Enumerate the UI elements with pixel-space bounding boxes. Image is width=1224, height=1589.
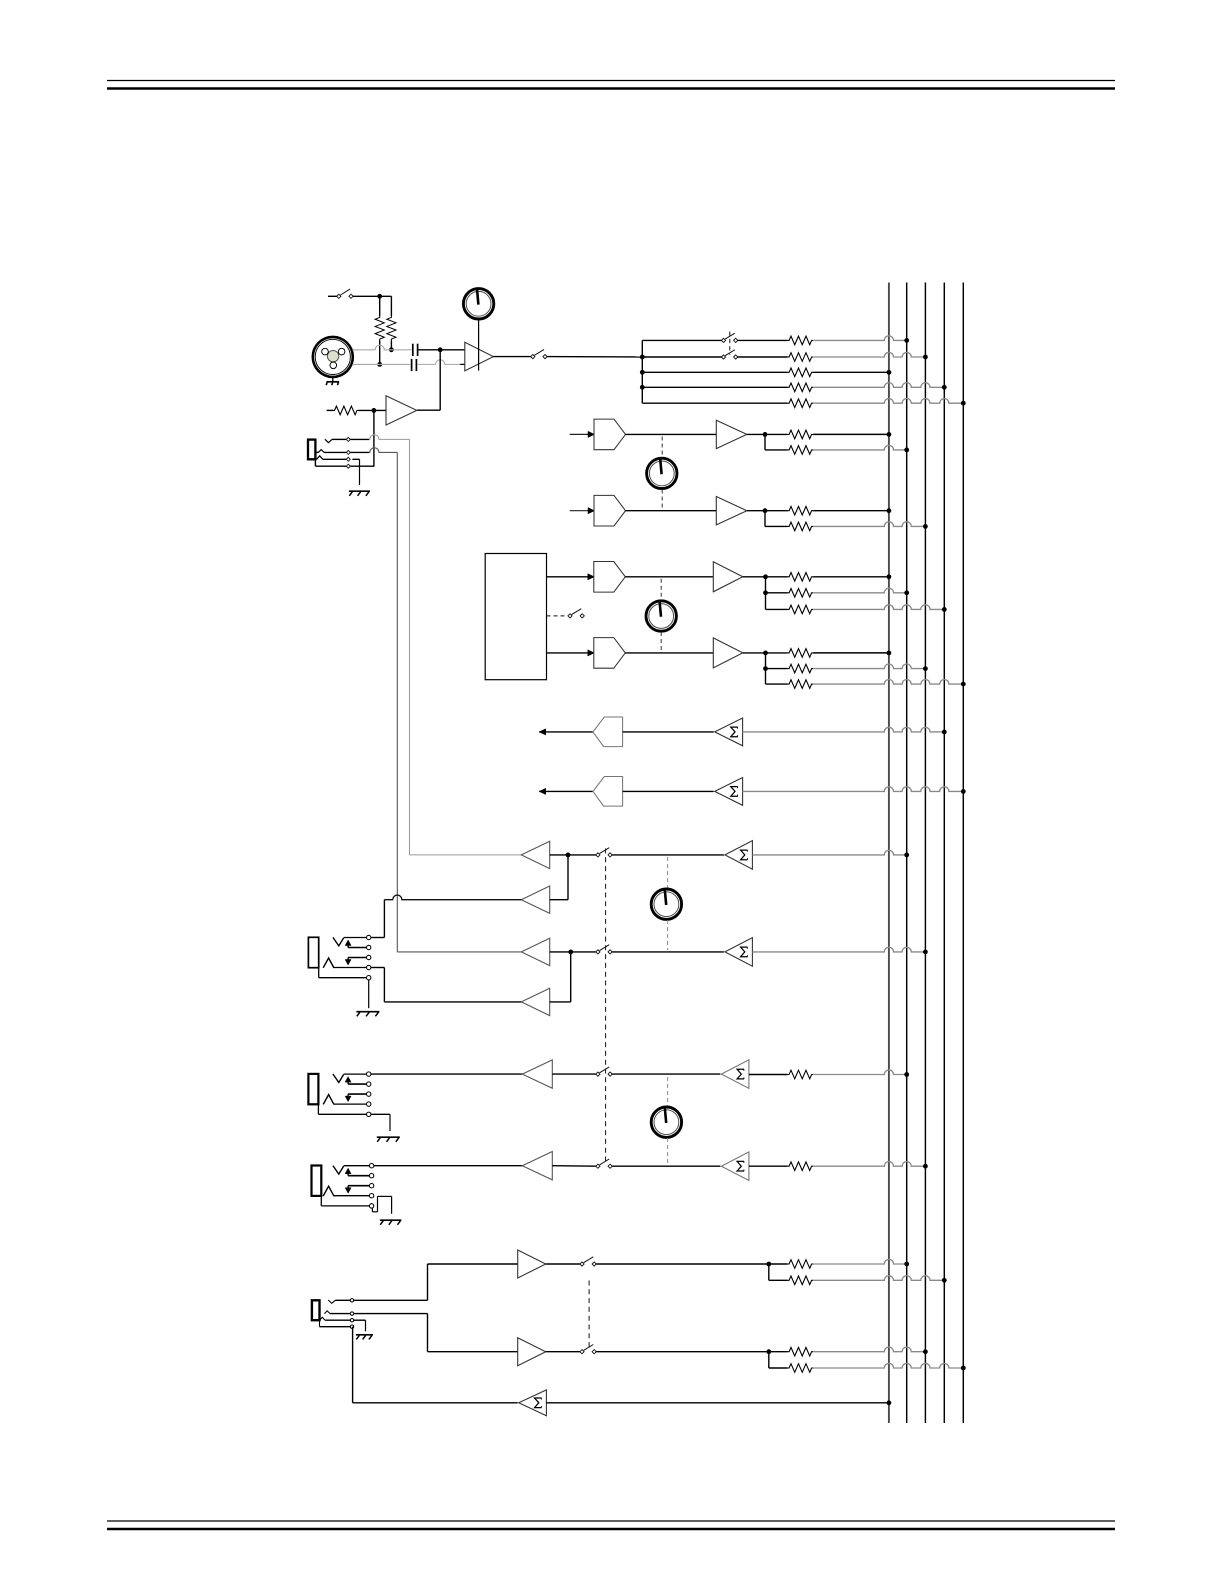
op-amp U aux2 [716, 497, 747, 525]
junction sum5 bus2 [904, 1072, 909, 1077]
junction row5 bus5 [961, 401, 966, 406]
resistor R aux1 main [788, 430, 814, 439]
wire EQ1 out [743, 576, 788, 578]
fader symbol aux master 2 [593, 777, 623, 807]
wire tape1 branch [769, 1264, 788, 1280]
wire aux1 to amp [626, 433, 717, 435]
op-amp U F monitor [522, 1152, 552, 1180]
wire tape1 to split [596, 1263, 788, 1265]
wire pot4 dash lower [667, 920, 669, 950]
junction line input node [372, 408, 377, 413]
wire fan row1 b [737, 339, 787, 341]
junction fan row3 [640, 370, 645, 375]
junction input node [438, 347, 443, 352]
junction sum3 bus2 [904, 853, 909, 858]
junction EQ1-1 bus1 [887, 574, 892, 579]
wire phantom feed [328, 295, 337, 297]
wire R1 bottom lead [379, 341, 381, 365]
wire XLR pin3 lead (cold) [352, 363, 410, 365]
summing amp U sum1 [715, 718, 743, 746]
jack J4 control room L [308, 1072, 371, 1117]
junction EQ1-2 bus2 [904, 590, 909, 595]
op-amp U EQ2 [713, 638, 743, 668]
wire aux2 branch [765, 511, 788, 527]
switch SW monitor E [596, 1067, 612, 1076]
wire J6 ring to amp [354, 1314, 518, 1352]
wire line node to jack [373, 410, 375, 466]
page border top [107, 81, 1115, 89]
junction sum7 bus1 [887, 1400, 892, 1405]
resistor R tape2 main [788, 1347, 814, 1356]
junction phantom node [377, 294, 382, 299]
wire R3 to buffer [359, 409, 387, 411]
arrow aux2 input [588, 508, 595, 514]
XLR connector J1 mic input [313, 337, 353, 377]
wire row4 to bus4 [813, 383, 944, 388]
wire EQ bypass dash [547, 615, 567, 617]
wire amp F input [552, 1165, 597, 1168]
junction EQ2-1 bus1 [887, 651, 892, 656]
wire R2 top lead [390, 296, 392, 316]
wire aux2 to bus1 [813, 510, 889, 512]
wire tip drive vertical [383, 900, 385, 938]
resistor R row5 [788, 399, 814, 408]
wire EQ2 to amp [625, 652, 713, 654]
op-amp U tape1 [518, 1250, 546, 1278]
wire J2 tip lead [350, 438, 369, 440]
wire pot5 dash upper [667, 1077, 669, 1107]
junction sum1 bus4 [942, 730, 947, 735]
resistor R3 line input [333, 406, 359, 415]
wire node A to amp B [550, 855, 568, 900]
wire to channel fan [547, 356, 643, 358]
wire node C to amp D [550, 952, 571, 1002]
junction row2 bus3 [923, 355, 928, 360]
wire sum2 from bus5 [743, 787, 964, 792]
wire aux1 branch to bus2 [813, 445, 907, 450]
resistor R tape1 branch [788, 1276, 814, 1285]
wire tape1 branch to bus4 [813, 1276, 944, 1281]
wire sum6 from bus3 [813, 1162, 925, 1167]
wire aux1 out [747, 433, 788, 435]
wire monitor feed C vertical [397, 452, 521, 952]
arrow aux send 2 output [539, 788, 546, 794]
wire row3 to bus1 [813, 371, 889, 373]
wire EQ out1 [547, 576, 589, 578]
wire J4 tip to amp E [371, 1073, 522, 1075]
wire EQ1-1 to bus1 [813, 576, 889, 578]
wire aux pan dash upper [661, 437, 663, 458]
junction EQ1 split1 [763, 574, 768, 579]
wire row1 to bus2 [813, 336, 907, 341]
wire row2 to bus3 [813, 352, 925, 357]
wire tape1 out [546, 1263, 581, 1265]
wire SW-E to sum [612, 1073, 721, 1075]
wire amp B output [384, 895, 521, 900]
capacitor C1 [413, 344, 418, 356]
op-amp U B monitor [521, 886, 549, 913]
junction EQ2 split2 [763, 666, 768, 671]
ground J4 [377, 1137, 400, 1142]
potentiometer VR1 gain [463, 288, 493, 319]
wire J5 sleeve step [372, 1196, 391, 1213]
wire sum3 from bus2 [752, 850, 906, 855]
wire EQ2-2 to bus3 [813, 664, 925, 669]
wire ring drive vertical [383, 968, 385, 1002]
ground J5 [380, 1220, 402, 1225]
wire EQ1-3 to bus4 [813, 605, 944, 610]
op-amp U2 line input buffer [386, 396, 417, 425]
fader symbol EQ2 [594, 638, 626, 669]
wire EQ1 to amp [625, 576, 713, 578]
wire gang dash SW row1-row2 [729, 332, 731, 355]
wire pot4 dash upper [667, 857, 669, 889]
wire sum6 out [749, 1165, 788, 1167]
resistor R row3 [788, 368, 814, 377]
junction sum4 bus3 [923, 950, 928, 955]
switch SW tape1 [580, 1257, 596, 1266]
bus line 4 (aux bus 1) [943, 283, 945, 1424]
wire aux1 input [570, 433, 589, 435]
wire SW-C to sum [612, 951, 724, 953]
wire EQ2-1 to bus1 [813, 652, 889, 654]
switch SW2 channel on [531, 349, 547, 358]
resistor R EQ2-3 [788, 680, 814, 689]
wire aux master 1 [623, 731, 714, 733]
wire J6 tip to amp [354, 1264, 518, 1300]
resistor R aux2 main [788, 506, 814, 515]
wire amp C input [550, 951, 597, 953]
op-amp U A monitor [521, 841, 549, 868]
junction aux2 bus3 [923, 524, 928, 529]
wire U1 output [493, 356, 531, 358]
page border bottom [107, 1521, 1115, 1529]
potentiometer VR3 EQ [646, 600, 676, 631]
junction R1 to XLR pin3 lead [377, 362, 382, 367]
wire line buffer out [417, 409, 440, 411]
wire monitor feed A vertical [410, 439, 522, 855]
wire phantom to resistors [353, 295, 392, 297]
wire EQ out2 [547, 652, 589, 654]
wire EQ2 branch1 drop [766, 653, 788, 669]
junction EQ2-2 bus3 [923, 666, 928, 671]
summing amp U sum4 [725, 938, 753, 967]
arrow aux1 input [588, 431, 595, 437]
ground XLR shell [326, 377, 339, 386]
wire J2 ring to monitor C [369, 448, 397, 453]
op-amp U1 mic preamp [465, 342, 494, 371]
wire tape1 to bus2 [813, 1259, 907, 1264]
op-amp U D monitor [521, 988, 549, 1015]
resistor R tape2 branch [788, 1364, 814, 1373]
wire aux pan dash lower [661, 490, 663, 510]
wire J4 ground path [371, 1114, 390, 1131]
wire J5 tip to amp F [374, 1165, 522, 1167]
op-amp U aux1 [716, 420, 747, 448]
junction EQ1 split2 [763, 590, 768, 595]
wire R2 bottom lead [390, 341, 392, 350]
potentiometer VR2 aux level [647, 458, 677, 489]
wire VR1 stem [478, 319, 480, 371]
potentiometer VR4 monitor level [651, 888, 681, 919]
wire EQ2 out [743, 652, 788, 654]
ground J6 [356, 1335, 373, 1340]
switch SW tape2 [580, 1345, 596, 1354]
resistor R1 phantom [375, 316, 384, 340]
wire J2 ring lead [350, 451, 369, 453]
wire aux master 2 [623, 790, 714, 792]
junction aux2 bus1 [887, 508, 892, 513]
junction row3 bus1 [887, 370, 892, 375]
fader symbol aux2 [594, 495, 626, 526]
switch SW row2 assign [721, 350, 737, 359]
switch SW monitor F [596, 1159, 612, 1168]
wire aux1 branch [765, 434, 788, 450]
wire C1 to amp junction [419, 349, 465, 351]
wire row5 to bus5 [813, 399, 963, 404]
wire tape2 to split [596, 1351, 788, 1353]
resistor R aux2 branch [788, 522, 814, 531]
wire J3 sleeve to ground [368, 980, 370, 1009]
potentiometer VR5 phones level [651, 1106, 681, 1137]
junction aux2 split [763, 508, 768, 513]
junction tape2 bus3 [923, 1349, 928, 1354]
junction monitor node A [566, 853, 571, 858]
wire fan row3 [642, 371, 787, 373]
bus line 5 (aux bus 2) [962, 283, 964, 1424]
wire fan row1 a [642, 339, 722, 341]
op-amp U C monitor [521, 938, 549, 965]
wire fan vertical [641, 340, 643, 403]
wire sum7 from bus1 [546, 1402, 889, 1404]
wire aux2 input [570, 510, 589, 512]
wire tape2 branch [769, 1352, 788, 1368]
junction fan row4 [640, 385, 645, 390]
junction tape1 bus4 [942, 1278, 947, 1283]
switch SW1 phantom power [337, 289, 353, 298]
wire amp D output [384, 1001, 521, 1003]
wire EQ pot dash upper [660, 579, 662, 600]
resistor R2 phantom [387, 316, 396, 340]
wire EQ2 branch2 drop [766, 669, 788, 685]
wire fan row5 [642, 402, 787, 404]
wire amp E input [552, 1073, 597, 1075]
wire R1 top lead [379, 296, 381, 316]
resistor R aux1 branch [788, 446, 814, 455]
wire fan row2 b [737, 356, 787, 358]
ground J3 [356, 1012, 379, 1017]
summing amp U sum6 [721, 1152, 749, 1181]
switch SW monitor A [596, 848, 612, 857]
summing amp U sum2 [715, 778, 743, 806]
summing amp U sum3 [725, 841, 753, 870]
wire J3 tip to amp B [371, 937, 384, 939]
wire SW-A to sum [612, 854, 724, 856]
resistor R EQ2-1 [788, 649, 814, 658]
wire EQ1-2 to bus2 [813, 588, 907, 593]
resistor R EQ1-2 [788, 589, 814, 598]
switch SW EQ bypass [568, 609, 584, 618]
junction EQ2-3 bus5 [961, 682, 966, 687]
wire tape2 branch to bus5 [813, 1363, 963, 1368]
wire EQ2-3 to bus5 [813, 680, 963, 685]
jack J6 tape in/out [312, 1299, 354, 1329]
resistor R row1 [788, 336, 814, 345]
EQ block U-EQ [485, 554, 546, 680]
wire line input resistor lead [327, 409, 333, 411]
wire sum5 out [749, 1074, 788, 1076]
wire tape gang dash [588, 1281, 590, 1350]
switch SW row1 assign [721, 333, 737, 342]
junction row1 bus2 [904, 338, 909, 343]
op-amp U E monitor [522, 1060, 552, 1088]
junction aux1 split [763, 432, 768, 437]
wire J2 contact to ground [352, 459, 359, 485]
ground J2 [349, 491, 370, 496]
wire sum5 from bus2 [813, 1070, 907, 1075]
junction aux1 bus1 [887, 432, 892, 437]
junction sum2 bus5 [961, 789, 966, 794]
wire lower input tick [460, 363, 465, 365]
resistor R row4 [788, 383, 814, 392]
wire J2 tip to monitor A [369, 435, 409, 440]
resistor R row2 [788, 353, 814, 362]
wire tape2 out [546, 1351, 581, 1353]
wire tape2 to bus3 [813, 1347, 925, 1352]
wire XLR pin2 lead (hot) [352, 345, 411, 350]
junction tape1 bus2 [904, 1262, 909, 1267]
op-amp U tape2 [518, 1338, 546, 1366]
wire EQ1 branch2 drop [766, 593, 788, 610]
wire EQ1 branch1 drop [766, 577, 788, 593]
jack J2 line input [308, 437, 374, 468]
wire pot5 dash lower [667, 1138, 669, 1164]
wire aux send 1 out [539, 731, 593, 733]
summing amp U sum7 tape return [519, 1390, 547, 1416]
junction aux1 bus2 [904, 448, 909, 453]
arrow EQ out2 [588, 650, 595, 656]
junction fan row2 [640, 355, 645, 360]
bus line 3 (main bus R) [924, 283, 926, 1424]
junction sum6 bus3 [923, 1164, 928, 1169]
junction tape2 split [766, 1349, 771, 1354]
capacitor C2 [412, 359, 417, 371]
wire EQ pot dash lower [660, 632, 662, 651]
junction row4 bus4 [942, 385, 947, 390]
summing amp U sum5 [721, 1060, 749, 1089]
junction monitor node C [568, 950, 573, 955]
resistor R EQ1-3 [788, 605, 814, 614]
wire aux2 out [747, 510, 788, 512]
resistor R EQ1-1 [788, 573, 814, 582]
bus line 1 (mix bus L) [888, 283, 890, 1424]
wire tape return left [353, 1327, 518, 1403]
junction EQ2 split1 [763, 651, 768, 656]
junction tape1 split [766, 1262, 771, 1267]
arrow EQ out1 [588, 574, 595, 580]
wire amp A input [550, 854, 597, 856]
jack J3 monitor insert [308, 935, 371, 980]
fader symbol aux master 1 [593, 717, 623, 747]
fader symbol EQ1 [594, 562, 626, 593]
wire junction vertical [439, 350, 441, 410]
junction EQ1-3 bus4 [942, 607, 947, 612]
wire aux2 branch to bus3 [813, 522, 925, 527]
switch SW monitor C [596, 945, 612, 954]
wire sum1 from bus4 [743, 727, 945, 732]
resistor R EQ2-2 [788, 664, 814, 673]
wire aux1 to bus1 [813, 433, 889, 435]
junction tape2 bus5 [961, 1366, 966, 1371]
wire fan row4 [642, 386, 787, 388]
wire aux2 to amp [626, 510, 717, 512]
arrow aux send 1 output [539, 729, 546, 735]
wire sum4 from bus3 [752, 947, 925, 952]
wire J3 ring to amp D [371, 967, 384, 969]
junction R2 to XLR pin2 lead [389, 347, 394, 352]
op-amp U EQ1 [713, 562, 743, 592]
bus line 2 (main bus L) [906, 283, 908, 1424]
resistor R tape1 main [788, 1260, 814, 1269]
resistor R sum5 [788, 1070, 814, 1079]
wire fan row2 a [642, 356, 722, 358]
fader symbol aux1 [594, 419, 626, 450]
wire J6 contact3 to ground [354, 1320, 366, 1331]
wire monitor gang dash [605, 849, 607, 1162]
wire C2 to amp lower input [417, 360, 465, 365]
wire aux send 2 out [539, 790, 593, 792]
jack J5 control room R [312, 1164, 374, 1209]
wire SW-F to sum [612, 1165, 721, 1167]
resistor R sum6 [788, 1162, 814, 1171]
